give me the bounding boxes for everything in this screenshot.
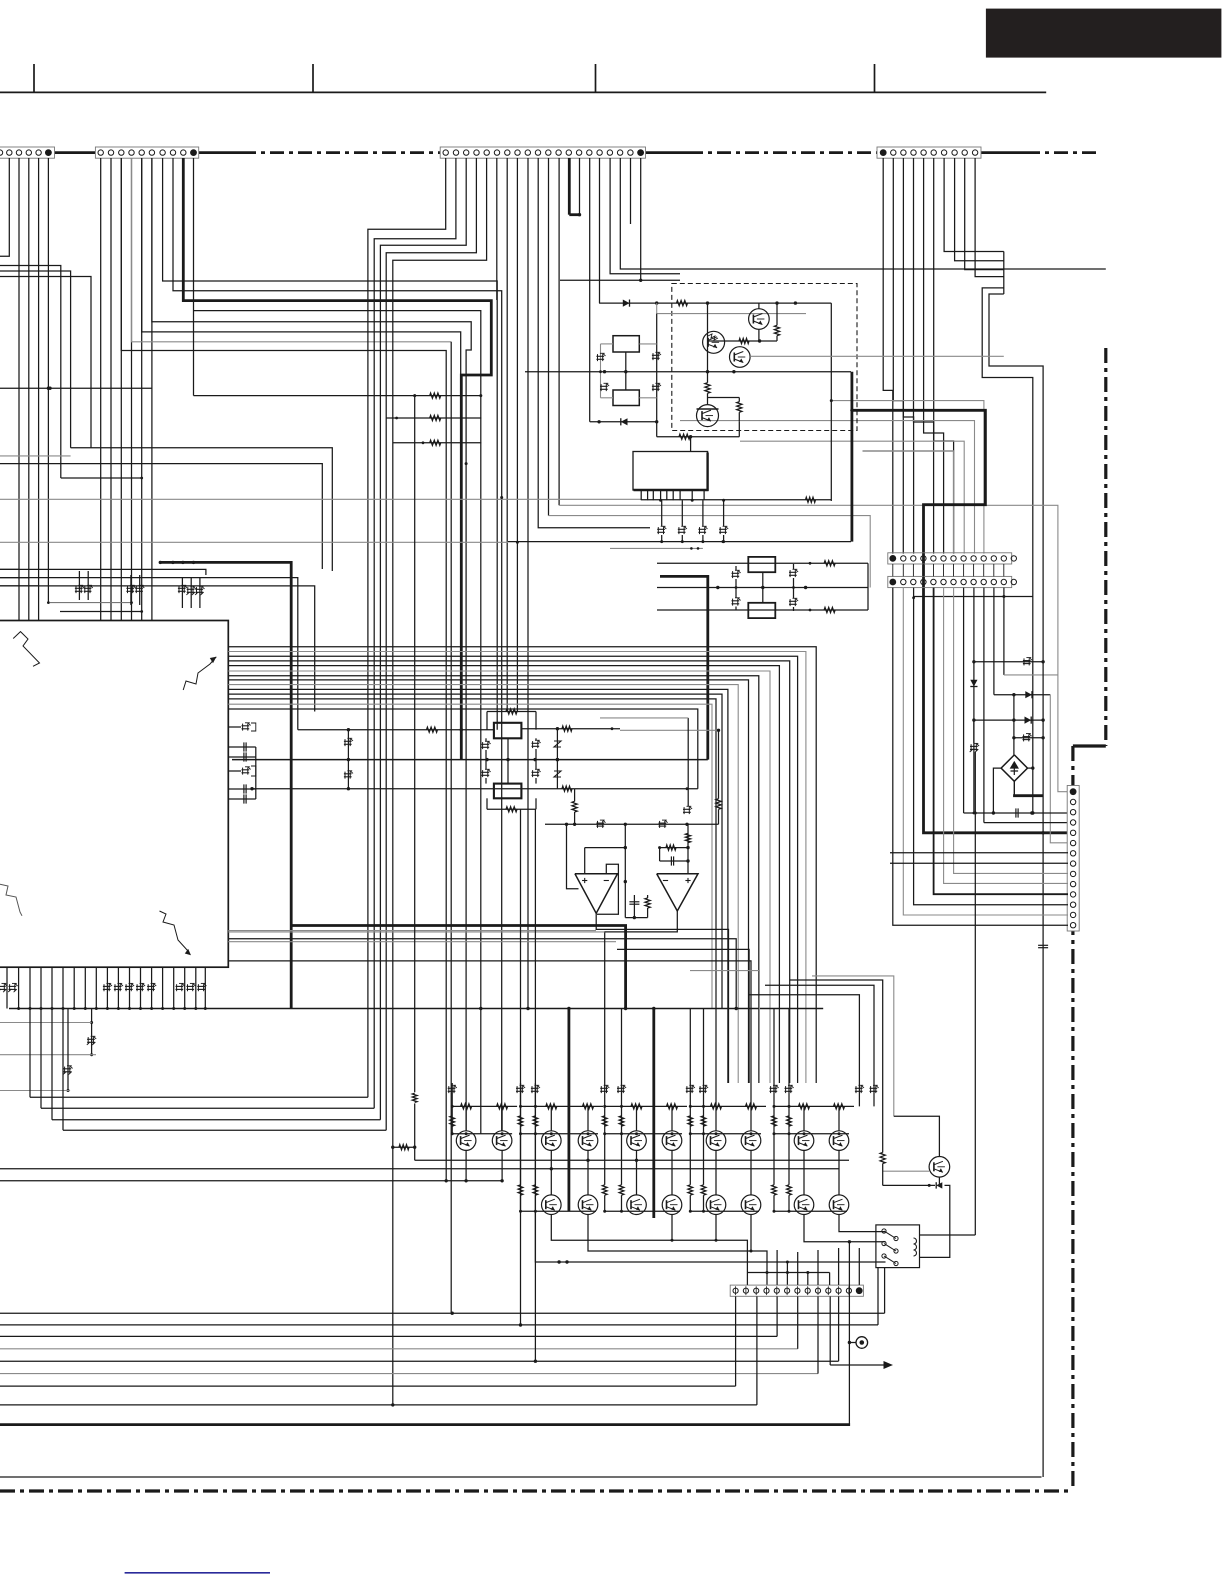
wire Q2-Q4 x707 bbox=[707, 303, 709, 383]
array group 5 resistors bbox=[799, 1104, 810, 1109]
array group 3 lower bbox=[636, 1150, 638, 1195]
array group 5 rails bbox=[774, 1105, 854, 1107]
wire x451 long bbox=[450, 342, 452, 1313]
bottom thin rule bbox=[0, 1476, 1042, 1478]
strip A feed 2 gray bbox=[680, 421, 975, 554]
wire CN1 pin4 bbox=[28, 158, 30, 621]
zener Z50 bbox=[1023, 660, 1031, 662]
oscillator X10 bottom bbox=[613, 390, 639, 406]
op-amp U1 bbox=[575, 874, 618, 914]
wire CN3 pin18 right bbox=[620, 158, 1106, 269]
IC U2 pins bbox=[640, 490, 642, 500]
wire CN4 pin6 route bbox=[934, 158, 954, 554]
link x1014 bbox=[1013, 695, 1015, 755]
array rail y1181 bbox=[0, 1180, 502, 1182]
comb vertical bbox=[1003, 252, 1005, 295]
array group 4 rails bbox=[690, 1105, 766, 1107]
resistor right top bbox=[521, 728, 620, 730]
wire CN2 pin6 route bbox=[152, 158, 471, 1131]
wire y610 bbox=[657, 609, 868, 611]
zener diag 2 bbox=[554, 771, 561, 777]
relay coil bbox=[914, 1238, 917, 1256]
wire CN3 pin13 bold bbox=[568, 158, 571, 215]
wire CN3 pin10 down bbox=[538, 158, 650, 528]
staircase y949 bbox=[617, 949, 749, 1083]
zener Z21 bbox=[659, 822, 667, 824]
wire CN3 pin12 down bbox=[558, 158, 560, 505]
long vertical x520 bbox=[520, 809, 522, 1325]
gray wire y675 bbox=[1004, 674, 1058, 676]
long vertical x535 bbox=[534, 809, 536, 1361]
bottom long rails bbox=[0, 1312, 885, 1314]
diode D52 bbox=[1025, 691, 1032, 698]
tick mark 3 bbox=[595, 64, 597, 92]
zener Z55 bbox=[970, 745, 978, 747]
resistor R80 bbox=[880, 1153, 885, 1164]
staircase into CN-R bbox=[893, 588, 1068, 926]
zener diag 1 bbox=[556, 729, 558, 789]
resistor R10 loop top bbox=[486, 712, 488, 730]
Q80 base wire bbox=[883, 1170, 929, 1172]
zener ZR1 bbox=[789, 571, 797, 573]
wire y788 right bbox=[575, 788, 698, 790]
rung y695 bbox=[994, 694, 1050, 696]
IC U10 pin1 arrow bbox=[13, 632, 39, 667]
resistor R3 bbox=[739, 338, 749, 343]
jog path B bbox=[989, 294, 1043, 662]
wire CN3 pin14 down bbox=[579, 158, 581, 215]
wire CN3 pin11 down bbox=[548, 158, 550, 516]
wire CN3 pin19 stub bbox=[630, 158, 632, 224]
wire CN2 pin3 route bbox=[121, 158, 446, 1181]
transistor QA3 bbox=[542, 1131, 562, 1151]
resistor R6 bbox=[679, 434, 690, 439]
bold vert x654 bbox=[652, 1009, 655, 1219]
transistor Q3 bbox=[730, 347, 751, 368]
op-amp U2 feedback C bbox=[659, 848, 661, 861]
IC U10 right stub cap 3 bbox=[228, 788, 256, 790]
strip A feed 4 bbox=[863, 451, 954, 554]
jog path A bbox=[982, 288, 1033, 597]
vert x414 bbox=[414, 396, 416, 1093]
cap C60 bbox=[1038, 944, 1048, 946]
top rule bbox=[0, 91, 1046, 93]
wire gray staircase B bbox=[549, 516, 871, 588]
gray rail y498 bbox=[0, 498, 641, 500]
wire y478 link bbox=[61, 477, 142, 479]
resistor R5 bbox=[737, 402, 742, 413]
op-amp U1 input top bbox=[584, 848, 586, 874]
wire CN3 pin20 down bbox=[640, 158, 642, 280]
vert x1043 bbox=[1042, 662, 1044, 1477]
blue link underline bbox=[125, 1572, 270, 1574]
zener row below IC bbox=[0, 985, 6, 987]
zener Z54 bbox=[1023, 736, 1031, 738]
zener Z20 bbox=[596, 822, 604, 824]
wire CN2 pin5 route bbox=[142, 158, 461, 712]
IC U2 cap row bbox=[657, 528, 665, 530]
wire CN4 pin7 route bbox=[944, 158, 1004, 252]
Q80 emitter diode bbox=[938, 1177, 940, 1185]
column x348 bbox=[347, 730, 349, 789]
wire y596 bbox=[914, 596, 1033, 598]
gray staircase U2 out bbox=[605, 911, 678, 1083]
transistor QA1 bbox=[456, 1131, 476, 1151]
wire left edge y276 bbox=[0, 277, 91, 448]
strip B pin x963 to cap line bbox=[963, 588, 965, 813]
zener ZX3 bbox=[600, 385, 608, 387]
Q80 collector bbox=[894, 1116, 940, 1156]
strip CN-B bbox=[888, 576, 1012, 587]
bridge left wire bbox=[993, 768, 1001, 813]
IC U10 right stub cap 1 bbox=[228, 746, 256, 748]
arrow out bbox=[829, 1297, 831, 1366]
wire CN2 pins down to IC bbox=[100, 158, 102, 621]
dashed box bbox=[672, 284, 857, 431]
gray stub rail y941 bbox=[228, 941, 616, 943]
bus dash-dot right of CN4 bbox=[981, 151, 1026, 154]
wire CN3 pin6 down bbox=[496, 158, 498, 300]
bold vertical x852 from dashed box bbox=[851, 372, 854, 542]
strip CN-A bbox=[888, 553, 1012, 564]
diode D1 bbox=[623, 300, 630, 307]
connector CN1 bbox=[0, 147, 55, 158]
staircase y932 gray bbox=[228, 931, 604, 933]
transistor Q80 bbox=[929, 1157, 950, 1178]
wire y280 horizontal bbox=[560, 279, 680, 281]
tap below bus 1 bbox=[91, 1009, 93, 1055]
strip interconnects bbox=[892, 564, 894, 576]
transistor QB8 bbox=[741, 1195, 761, 1215]
gray wire y356 bbox=[750, 355, 1004, 357]
wire CN4 pin9 route bbox=[965, 158, 1004, 270]
zener single Q bbox=[855, 1087, 863, 1089]
group1 emitters bbox=[465, 1150, 467, 1180]
ladder x975 extend bbox=[974, 752, 976, 1235]
resistor R41 bbox=[824, 607, 835, 612]
border bottom dash-dot bbox=[0, 1489, 1073, 1492]
loop x868 bbox=[867, 563, 869, 610]
wire CN1 pin5 bbox=[38, 158, 40, 621]
transistor QA8 bbox=[741, 1131, 761, 1151]
left pins below bus bbox=[29, 1009, 31, 1098]
op-amp U2 bbox=[657, 874, 698, 911]
gray rail y543 bbox=[0, 541, 508, 543]
relay left feed 1 bbox=[839, 1215, 885, 1232]
wire CN3 pin9 down bbox=[527, 158, 529, 1009]
staircase y985 bbox=[765, 985, 874, 1106]
op-amp U1 feedback bbox=[597, 864, 618, 914]
array group 5 lower bbox=[803, 1150, 805, 1195]
strip A feed 1 gray bbox=[831, 401, 984, 554]
transistor QA2 bbox=[492, 1131, 512, 1151]
gray staircase y971 bbox=[690, 971, 759, 1083]
wire CN-R pin8 bbox=[890, 862, 1068, 864]
wire CN4 pin1 route bbox=[883, 158, 893, 554]
wire CN4 pin2 route bbox=[893, 158, 903, 554]
resonator X1 bottom bbox=[494, 784, 522, 799]
bus y371 through dashed box bbox=[525, 371, 851, 373]
wire gray staircase A bbox=[559, 505, 1068, 791]
connector CN-BOT bbox=[730, 1285, 863, 1296]
bus line between CN1 and CN2 bbox=[55, 151, 96, 154]
IC U10 right stub cap 2 bbox=[228, 756, 256, 758]
zener ZX4 bbox=[652, 385, 660, 387]
wire CN2 pin10 route bbox=[193, 158, 195, 396]
array group 3 resistors bbox=[631, 1104, 642, 1109]
wire CN2 pin9 bold route bbox=[183, 158, 491, 760]
array bottom route 2 bbox=[588, 1215, 767, 1285]
transistor QA10 bbox=[829, 1131, 849, 1151]
wire CN-R pin7 bbox=[890, 852, 1068, 854]
staircase U1 out bbox=[596, 913, 728, 1083]
wire x656 bbox=[656, 314, 658, 422]
resistor R1 bbox=[677, 301, 688, 306]
wire y422 bbox=[590, 421, 657, 423]
diode D2 bbox=[621, 418, 628, 425]
relay coil feed bbox=[920, 1234, 976, 1236]
jack feed bbox=[848, 1242, 850, 1425]
wire pin4 bbox=[984, 822, 1068, 824]
bus junction dots bbox=[526, 1007, 529, 1010]
wire CN3 pin3 route left bbox=[380, 158, 466, 1120]
resistor R2 bbox=[774, 325, 779, 335]
tick mark 2 bbox=[312, 64, 314, 92]
wire y341 bbox=[708, 340, 778, 342]
center rail y587 bbox=[657, 587, 868, 589]
bold rail y1425 bbox=[0, 1423, 850, 1426]
transistor QA5 bbox=[627, 1131, 647, 1151]
link bbox=[762, 572, 764, 603]
wire CN3 pin4 route left bbox=[386, 158, 476, 1130]
wire CN2 pin8 route bbox=[173, 158, 502, 1131]
array group 4 lower bbox=[715, 1150, 717, 1195]
main bus y1008 bbox=[9, 1008, 823, 1010]
IC U10 right stub zener 2 bbox=[228, 770, 241, 772]
array group 4 resistors bbox=[711, 1104, 722, 1109]
zener pair left bbox=[482, 743, 490, 745]
wire CN3 pin16 down bbox=[599, 158, 601, 303]
gray wire y313 bbox=[657, 313, 806, 315]
transistor QA6 bbox=[662, 1131, 682, 1151]
rung y720 bbox=[974, 719, 1043, 721]
wire y730 right bbox=[620, 729, 719, 731]
wire y824 bbox=[545, 823, 719, 825]
relay left feed 2 bbox=[804, 1215, 886, 1242]
oscillator X10 top bbox=[613, 336, 639, 352]
wire CN3 pin7 down bbox=[506, 158, 508, 712]
wire CN4 pin4 route bbox=[914, 158, 934, 554]
zener ZL2 bbox=[732, 600, 740, 602]
zener row above IC U10 bbox=[78, 571, 80, 600]
wire CN3 pin2 route left bbox=[374, 158, 456, 1108]
gray tap y602 bbox=[50, 602, 132, 604]
zener bus y542 bbox=[508, 541, 851, 543]
IC U10 corner arrow bottom-left bbox=[0, 884, 22, 916]
vert x1032 bbox=[1032, 597, 1034, 814]
gray rail y456 bbox=[0, 455, 71, 457]
resistor R31 bbox=[645, 898, 650, 908]
rect REG2 bbox=[748, 603, 775, 618]
group 3 lower rail bbox=[605, 1210, 680, 1212]
CN-BOT through pins bbox=[776, 1250, 778, 1285]
gray stub rail y930 bbox=[228, 930, 596, 932]
transistor QA7 bbox=[706, 1131, 726, 1151]
IC U10 right pin bus bundle bbox=[228, 647, 816, 1083]
wire x831 down bbox=[830, 303, 832, 501]
strip A feed 3 gray bbox=[740, 441, 964, 553]
wire CN2 pin7 route bbox=[163, 158, 498, 730]
border corner jog bbox=[1073, 744, 1106, 747]
rung y738 bbox=[1014, 737, 1043, 739]
vert x392 bbox=[392, 1147, 394, 1405]
cap jack line y813 bbox=[964, 812, 1068, 814]
title block (black) bbox=[986, 9, 1222, 58]
IC U10 corner arrow bottom-right bbox=[160, 911, 189, 951]
gray rail y548 bbox=[610, 547, 703, 549]
rect REG1 bbox=[748, 557, 775, 572]
connector CN2 bbox=[95, 147, 198, 158]
zener ZL1 bbox=[732, 572, 740, 574]
diode D53 bbox=[1025, 717, 1032, 724]
staircase y939 bbox=[228, 939, 736, 1009]
IC U10 right stub zener 1 bbox=[228, 726, 241, 728]
wire left edge y271 bbox=[0, 271, 71, 448]
CN-BOT pin13 stub bbox=[858, 1248, 860, 1285]
array group 2 lower bbox=[550, 1150, 552, 1195]
connector CN4 bbox=[877, 147, 981, 158]
op-amp U2 feedback R bbox=[660, 847, 688, 849]
tick mark 1 bbox=[33, 64, 35, 92]
array group 3 rails bbox=[605, 1105, 687, 1107]
border right dash-dot lower bbox=[1071, 746, 1074, 1491]
link X1 bbox=[507, 738, 509, 783]
bold vert x569 bbox=[568, 1009, 571, 1212]
zener pair right bbox=[532, 742, 540, 744]
resistor R13 bbox=[572, 801, 577, 812]
bus dash-dot CN2 to CN3 bbox=[199, 151, 242, 154]
resistor R40 bbox=[824, 561, 835, 566]
bold horizontal y925 bbox=[291, 926, 625, 1009]
transistor QB7 bbox=[706, 1195, 726, 1215]
transistor Q2 bbox=[703, 331, 725, 353]
staircase y980 bbox=[790, 980, 883, 1153]
resistor R-C bbox=[393, 442, 482, 444]
wire CN4 pin10 route bbox=[975, 158, 1004, 277]
group 4 lower rail bbox=[690, 1210, 759, 1212]
IC U10 bottom pins bbox=[6, 967, 8, 1008]
wire CN4 pin8 route bbox=[955, 158, 1004, 261]
resonator X1 top bbox=[494, 723, 522, 739]
wire CN2 pin10 fan branch bbox=[194, 311, 481, 1134]
array emitter drops bbox=[671, 1215, 673, 1241]
resistor R4 bbox=[705, 383, 710, 394]
wire left edge y265 bbox=[0, 266, 61, 479]
IC U10 right stub rails bbox=[255, 747, 257, 799]
wire CN3 pin15 down bbox=[589, 158, 591, 422]
IC U10 right stub cap 4 bbox=[228, 798, 256, 800]
bridge bottom bold bbox=[1013, 781, 1015, 795]
op-amp U1 input left bbox=[567, 824, 579, 889]
op-amp U2 plus chain bbox=[687, 824, 689, 873]
diode D51 bbox=[970, 680, 977, 687]
wire CN4 pin5 route bbox=[924, 158, 944, 554]
array group 1 resistors bbox=[461, 1104, 472, 1109]
jack J1 bbox=[849, 1342, 856, 1344]
gray y718 bbox=[600, 717, 688, 719]
U2 pin rail y500 bbox=[641, 499, 831, 501]
rail y586 bbox=[0, 586, 315, 712]
bold feed x708 bbox=[660, 576, 708, 759]
transistor QA9 bbox=[794, 1131, 814, 1151]
IC U10 body bbox=[0, 621, 228, 968]
gray staircase y976 bbox=[812, 976, 894, 1116]
group 2 lower rail bbox=[521, 1210, 597, 1212]
bold rail y562 to vertical x291 bbox=[160, 562, 291, 1008]
left-to-right link rails bbox=[30, 1096, 368, 1098]
diode to relay bbox=[920, 1185, 950, 1257]
long verticals mid bbox=[465, 462, 468, 465]
wire CN2 pin4 route gray bbox=[132, 158, 452, 342]
bus dash-dot CN3 to CN4 bbox=[646, 151, 690, 154]
X10 right wires bbox=[639, 343, 656, 345]
transistor QB6 bbox=[662, 1195, 682, 1215]
bridge rectifier DB1 bbox=[1001, 755, 1027, 781]
staircase y961 bbox=[228, 961, 751, 1107]
rung y662 bbox=[974, 661, 1043, 663]
transistor QB5 bbox=[627, 1195, 647, 1215]
transistor QB9 bbox=[794, 1195, 814, 1215]
wire CN3 pin5 route left bbox=[393, 158, 487, 1147]
tap below bus 2 bbox=[67, 1009, 69, 1091]
group 5 lower rail bbox=[774, 1210, 847, 1212]
connector CN-R bbox=[1067, 786, 1079, 932]
CN-BOT top rail bbox=[746, 1273, 748, 1285]
staircase y995 bbox=[748, 995, 859, 1107]
IC U2 top pin bbox=[690, 437, 692, 452]
X10 left wires bbox=[601, 343, 614, 345]
bold route to strip and CN-R bbox=[852, 410, 1068, 833]
resistor R70 bbox=[393, 1146, 415, 1148]
wire CN1 pin2 to left edge bbox=[0, 158, 9, 256]
transistor QB3 bbox=[542, 1195, 562, 1215]
rail y569 bbox=[0, 569, 206, 575]
resistor R14 bbox=[716, 799, 721, 810]
transistor QB4 bbox=[578, 1195, 598, 1215]
rail y577 bbox=[0, 578, 298, 730]
wire y563 bbox=[657, 562, 868, 564]
transistor Q4 bbox=[697, 405, 719, 427]
bridge right wire bbox=[1028, 767, 1033, 769]
wire CN3 pin1 route left bbox=[368, 158, 446, 1097]
array group 1 rails bbox=[452, 1105, 517, 1107]
IC U10 corner arrow top-right bbox=[183, 657, 216, 690]
wire x1050 to pin6 bbox=[1050, 695, 1068, 843]
zener ZX2 bbox=[652, 354, 660, 356]
zener ZR2 bbox=[789, 600, 797, 602]
array long rail y1160 bbox=[415, 1159, 849, 1161]
wire y437 bbox=[657, 436, 740, 438]
wire y789 bbox=[252, 788, 575, 790]
zener ZX1 bbox=[596, 355, 604, 357]
X10 link bbox=[625, 352, 627, 390]
resistor R-A bbox=[194, 395, 482, 397]
wire left edge y388 bbox=[0, 387, 152, 389]
tap y611 bbox=[60, 611, 142, 613]
tick mark 4 bbox=[874, 64, 876, 92]
ground sym x687 bbox=[687, 718, 689, 806]
resistor R11 loop bottom bbox=[486, 798, 488, 809]
